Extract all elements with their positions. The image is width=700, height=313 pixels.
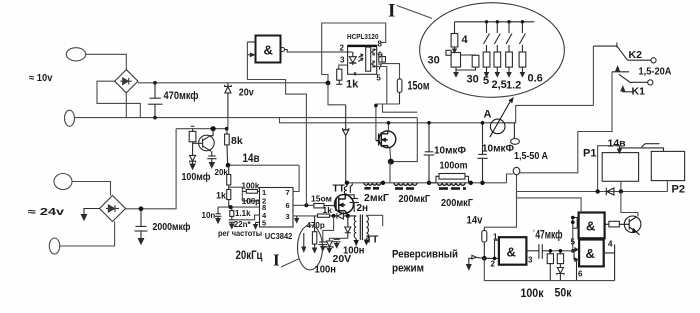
node <box>559 249 563 253</box>
svg-text:4: 4 <box>608 240 613 249</box>
mosfet Q3 <box>335 195 354 214</box>
node <box>374 104 378 108</box>
svg-text:режим: режим <box>392 263 424 275</box>
zener VD4 <box>343 105 349 183</box>
wire relay bus <box>517 191 668 193</box>
svg-text:15oм: 15oм <box>408 79 430 93</box>
wire <box>72 182 111 196</box>
svg-text:A: A <box>484 109 492 121</box>
relay P1 <box>602 153 638 182</box>
ammeter A <box>490 98 513 137</box>
wire drain <box>388 123 390 132</box>
inductor L1 <box>364 183 381 189</box>
gate U2 inputs <box>247 42 255 56</box>
svg-text:470мкф: 470мкф <box>164 90 199 102</box>
node <box>226 163 231 168</box>
wire rail B <box>280 118 515 123</box>
svg-text:Реверсивный: Реверсивный <box>392 249 458 261</box>
svg-text:20k: 20k <box>215 168 229 177</box>
svg-text:20кГц: 20кГц <box>236 248 263 262</box>
svg-text:8k: 8k <box>231 135 243 147</box>
resistor 8k <box>225 129 230 166</box>
pin5 ground <box>254 222 260 228</box>
svg-text:0.6: 0.6 <box>528 73 543 85</box>
switch K2 <box>593 43 656 63</box>
bridge rectifier BR1 <box>115 70 138 93</box>
wire pin6 hcpl <box>377 54 400 79</box>
tick <box>191 125 195 127</box>
node <box>469 181 473 185</box>
pin labels U1 <box>340 40 383 83</box>
svg-text:15oм: 15oм <box>311 194 332 204</box>
capacitor 470p <box>312 216 316 252</box>
wire pin3 hcpl <box>339 65 348 69</box>
node <box>493 257 497 261</box>
svg-text:4: 4 <box>462 34 469 46</box>
svg-text:2000мкф: 2000мкф <box>153 221 191 233</box>
switch K mid <box>612 67 653 86</box>
zener VD8 <box>557 268 564 281</box>
node <box>427 121 431 125</box>
node <box>481 121 485 125</box>
resistor Rb <box>606 221 619 227</box>
resistor 1k <box>227 190 231 208</box>
svg-text:1k: 1k <box>216 191 227 201</box>
gate U6 & <box>579 240 604 267</box>
shunt terminal 1 <box>511 123 520 145</box>
svg-text:ТТ: ТТ <box>366 235 378 246</box>
P2 contact <box>619 144 663 152</box>
wire feedback vertical <box>247 42 306 205</box>
svg-text:7: 7 <box>286 188 290 197</box>
node <box>571 220 575 224</box>
wire U6 output <box>604 245 615 281</box>
wire rail2 <box>176 128 228 130</box>
gate U4 inputs <box>573 218 579 229</box>
connector X4 <box>49 238 59 254</box>
wire gate2 top <box>517 192 582 213</box>
svg-text:3: 3 <box>340 56 345 65</box>
node <box>619 189 623 193</box>
svg-text:10мкФ: 10мкФ <box>482 143 514 155</box>
wire <box>507 174 514 183</box>
rheostat 30 <box>446 50 479 76</box>
inductor L2 <box>394 183 417 189</box>
wire <box>323 216 334 242</box>
wire <box>229 187 243 201</box>
probe bus <box>455 21 535 23</box>
CT winding TT1 <box>344 183 352 195</box>
svg-text:50к: 50к <box>555 286 573 300</box>
inductor L3 <box>438 183 467 189</box>
pin labels U3 <box>262 188 290 227</box>
wire <box>389 162 391 184</box>
shunt resistors <box>483 22 526 77</box>
tap arrow <box>295 216 299 222</box>
wire secondary <box>366 215 382 226</box>
shunt bus nodes <box>485 20 524 23</box>
svg-text:8: 8 <box>378 40 383 49</box>
capacitor 22n <box>229 220 235 229</box>
svg-text:K2: K2 <box>629 49 643 61</box>
node <box>387 121 391 125</box>
svg-text:200мкГ: 200мкГ <box>399 193 431 205</box>
node <box>304 203 308 207</box>
node <box>427 181 431 185</box>
svg-text:2: 2 <box>340 44 345 53</box>
diode VD7 <box>606 188 614 195</box>
svg-text:&: & <box>586 219 595 234</box>
svg-text:1,5-50 A: 1,5-50 A <box>514 150 548 162</box>
wire <box>484 175 516 228</box>
svg-text:1.1k: 1.1k <box>235 209 251 218</box>
svg-text:5: 5 <box>376 74 381 83</box>
svg-text:100мф: 100мф <box>182 171 211 183</box>
capacitor 47mkf <box>526 244 547 258</box>
pointer line <box>281 259 300 268</box>
wire bottom bus <box>484 258 614 280</box>
ellipse II probe <box>298 225 323 270</box>
wire <box>60 222 115 247</box>
ellipse I probe <box>420 3 565 98</box>
capacitor C11 <box>477 123 487 183</box>
IC U3 UC3842 <box>260 188 294 228</box>
capacitor C10 <box>424 123 435 183</box>
transistor Q4 <box>619 216 640 235</box>
LED internal <box>349 52 363 65</box>
wire 14v rail <box>228 164 300 166</box>
resistor 1.1k <box>230 207 234 220</box>
node <box>211 126 216 131</box>
wire gate path <box>376 104 400 141</box>
wire <box>86 54 127 69</box>
svg-text:2,5: 2,5 <box>492 79 507 91</box>
pin labels U6 <box>571 238 614 279</box>
svg-text:UC3842: UC3842 <box>265 231 293 241</box>
wire pin3 <box>293 215 318 217</box>
node <box>153 81 157 85</box>
svg-text:&: & <box>264 43 273 58</box>
svg-text:6: 6 <box>578 270 583 279</box>
node <box>153 116 157 120</box>
wire <box>126 129 177 209</box>
wire <box>125 93 127 118</box>
pointer line <box>397 6 432 19</box>
node <box>326 81 331 86</box>
svg-text:5: 5 <box>571 238 576 247</box>
diode VD3 <box>337 213 348 219</box>
svg-text:2: 2 <box>491 260 496 269</box>
mosfet Q2 <box>376 131 396 148</box>
gate U2 & <box>256 36 281 63</box>
node <box>482 256 487 261</box>
svg-text:K1: K1 <box>632 86 646 98</box>
svg-text:5: 5 <box>262 218 266 227</box>
svg-text:14в: 14в <box>243 153 260 165</box>
ground arrow <box>81 209 99 221</box>
relay P2 <box>651 151 684 180</box>
wire <box>666 181 668 192</box>
svg-text:6: 6 <box>286 201 290 210</box>
wire <box>293 165 299 191</box>
svg-text:100н: 100н <box>315 264 337 276</box>
wire <box>548 250 574 252</box>
node <box>229 205 233 209</box>
gate U4 & <box>579 213 607 239</box>
resistor 15om-g <box>314 204 335 208</box>
wire vcc jog <box>328 83 346 105</box>
node <box>388 159 394 165</box>
rail out+ <box>346 182 507 184</box>
svg-text:HCPL3120: HCPL3120 <box>347 32 379 41</box>
resistor R1 <box>189 129 196 144</box>
svg-text:≈ 24v: ≈ 24v <box>28 207 65 218</box>
switch contact rev <box>467 255 485 269</box>
node <box>480 181 484 185</box>
capacitor 2n <box>347 195 359 212</box>
resistor 20k <box>227 165 231 189</box>
svg-text:100оm: 100оm <box>440 160 468 172</box>
resistor 15om-v <box>397 79 402 104</box>
svg-text:100k: 100k <box>242 181 260 190</box>
svg-text:к: к <box>354 72 357 78</box>
svg-text:30: 30 <box>467 74 479 86</box>
resistor 50kb <box>557 251 563 267</box>
wire <box>391 118 418 162</box>
connector X1 <box>66 48 85 61</box>
wire <box>383 104 418 112</box>
svg-text:1,5-20A: 1,5-20A <box>639 66 672 78</box>
svg-text:1: 1 <box>493 233 498 242</box>
svg-text:ТТ: ТТ <box>333 184 345 195</box>
capacitor 100p <box>242 198 259 203</box>
capacitor 100n1 <box>333 238 341 247</box>
svg-text:10n: 10n <box>202 211 216 220</box>
wire source <box>390 148 391 162</box>
capacitor 470mkf <box>148 83 163 118</box>
svg-text:&: & <box>586 246 595 261</box>
bridge rectifier BR2 <box>100 196 126 222</box>
wire <box>520 72 612 173</box>
svg-text:20v: 20v <box>239 87 254 99</box>
wire VCC rail <box>138 82 328 84</box>
svg-text:I: I <box>273 251 280 270</box>
resistor 100kb <box>547 251 553 281</box>
svg-text:ʾ47мкф: ʾ47мкф <box>533 230 563 242</box>
node <box>571 216 575 220</box>
gate U5 inputs <box>484 240 499 258</box>
svg-text:рег частоты: рег частоты <box>218 228 262 238</box>
wire pin4 <box>235 215 260 220</box>
capacitor C2 <box>207 151 216 167</box>
wire pin7 hcpl <box>377 67 387 105</box>
resistor 1k-h <box>336 69 342 84</box>
node <box>596 189 600 193</box>
svg-text:100p: 100p <box>242 197 260 206</box>
svg-text:P1: P1 <box>583 148 596 160</box>
capacitor 2000mkf <box>135 209 148 244</box>
svg-text:1: 1 <box>262 188 266 197</box>
wire collector <box>621 192 638 217</box>
resistor 100k <box>242 190 259 194</box>
gate U6 inputs <box>574 248 579 281</box>
capacitor 10n <box>215 207 221 223</box>
zener VD6 20V <box>326 241 333 253</box>
transformer T1 <box>348 215 369 245</box>
zener VD2 <box>190 143 196 169</box>
svg-text:3: 3 <box>528 256 533 265</box>
node <box>381 181 385 185</box>
svg-text:5: 5 <box>483 75 489 87</box>
wire <box>329 238 347 241</box>
gate U2 output <box>281 48 353 53</box>
wire rail A <box>75 117 418 119</box>
svg-text:&: & <box>507 245 516 260</box>
svg-text:2мкГ: 2мкГ <box>364 192 389 204</box>
P1 coil arrow <box>618 146 622 153</box>
wire pin8 <box>218 206 260 208</box>
transistor Q1 <box>193 129 215 152</box>
gate U5 & <box>499 237 527 265</box>
resistor 4 <box>451 22 458 53</box>
svg-text:2н: 2н <box>357 203 369 214</box>
svg-text:30: 30 <box>428 55 440 67</box>
resistor R14v <box>482 227 487 258</box>
node <box>139 206 144 211</box>
svg-text:200мкГ: 200мкГ <box>441 197 473 209</box>
zener VD1 20v <box>225 83 232 118</box>
shunt terminal 2 <box>513 167 520 174</box>
resistor 1k-s <box>318 214 337 217</box>
pin labels U5 <box>491 233 534 269</box>
wire <box>97 81 140 117</box>
svg-text:100к: 100к <box>521 286 545 300</box>
svg-text:14v: 14v <box>467 215 484 227</box>
switch K1 <box>621 87 632 92</box>
zener VD5 <box>345 216 351 238</box>
capacitor 100n2 <box>319 242 328 251</box>
resistor 100om <box>429 174 469 183</box>
wire <box>592 46 594 105</box>
svg-text:10мкФ: 10мкФ <box>434 145 466 157</box>
svg-text:1k: 1k <box>323 205 333 215</box>
node <box>345 181 349 185</box>
connector X3 <box>54 174 72 190</box>
node <box>225 127 229 131</box>
driver internal <box>366 47 377 71</box>
node <box>346 214 350 218</box>
svg-text:1.2: 1.2 <box>506 80 521 92</box>
HCPL supply loop <box>322 23 386 83</box>
resistor internal <box>379 57 386 63</box>
node <box>332 214 336 218</box>
wire P1 supply <box>598 146 620 192</box>
wire <box>505 105 593 122</box>
connector X2 <box>65 110 75 126</box>
svg-text:1k: 1k <box>346 79 359 91</box>
svg-text:P2: P2 <box>672 184 685 196</box>
svg-text:I: I <box>388 1 395 22</box>
IC U1 HCPL3120 <box>348 45 377 74</box>
wire <box>572 228 574 251</box>
probe wire <box>302 233 306 252</box>
wire <box>620 181 622 191</box>
svg-text:3: 3 <box>286 212 290 221</box>
node <box>549 249 553 253</box>
node <box>571 249 575 253</box>
svg-text:≈ 10v: ≈ 10v <box>29 73 53 84</box>
wire pin6 <box>293 204 314 206</box>
wire <box>227 118 229 129</box>
